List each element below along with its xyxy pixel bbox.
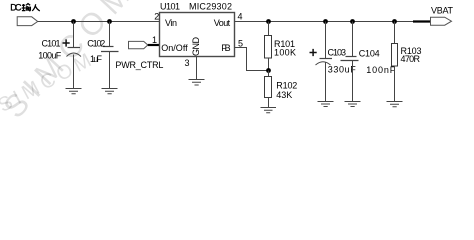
junction node C101 (71, 19, 76, 24)
svg-text:100uF: 100uF (38, 50, 62, 60)
svg-text:MIC29302: MIC29302 (189, 2, 232, 12)
wire FB net (235, 48, 269, 71)
ground (C104) (345, 102, 361, 107)
svg-text:1uF: 1uF (90, 54, 103, 64)
junction node R103 (392, 19, 397, 24)
wire pin 3 to ground (196, 57, 198, 80)
svg-text:DC: DC (10, 3, 22, 13)
svg-text:4: 4 (238, 11, 243, 21)
ground (R102) (261, 108, 277, 113)
junction node C102 (107, 19, 112, 24)
wire DC input net (38, 21, 160, 23)
junction node C103 (323, 19, 328, 24)
ground (C102) (102, 89, 118, 94)
regulator U101 MIC29302 (160, 2, 235, 57)
svg-text:C101: C101 (42, 38, 61, 48)
junction node FB (266, 68, 271, 73)
svg-text:FB: FB (221, 43, 231, 53)
svg-text:1: 1 (152, 35, 157, 45)
svg-text:Vin: Vin (165, 18, 177, 28)
svg-text:C104: C104 (359, 48, 380, 58)
capacitor C103 (310, 22, 357, 102)
svg-text:100K: 100K (274, 47, 296, 57)
resistor R102 (265, 71, 298, 108)
capacitor C104 (341, 22, 396, 102)
ground (C103) (318, 102, 334, 107)
capacitor C101 (38, 22, 81, 89)
resistor R101 (265, 22, 297, 71)
svg-text:C102: C102 (87, 38, 105, 48)
svg-text:3: 3 (184, 58, 189, 68)
svg-text:PWR_CTRL: PWR_CTRL (115, 60, 163, 70)
svg-text:C103: C103 (328, 47, 347, 57)
svg-text:On/Off: On/Off (161, 43, 188, 53)
ground (C101) (66, 89, 82, 94)
svg-text:470R: 470R (401, 54, 421, 64)
resistor R103 (392, 22, 422, 102)
junction node C104 (350, 19, 355, 24)
svg-text:VBAT: VBAT (431, 5, 454, 15)
ground (U101 pin 3) (189, 80, 205, 86)
ground (R103) (387, 102, 403, 107)
wire VOUT net (235, 21, 414, 23)
svg-text:U101: U101 (160, 2, 180, 12)
svg-text:GND: GND (191, 37, 201, 57)
port DC输入 (10, 3, 40, 26)
port VBAT (413, 5, 454, 25)
capacitor C102 (87, 22, 118, 89)
svg-text:330uF: 330uF (328, 64, 357, 74)
port PWR_CTRL (115, 41, 163, 69)
svg-text:43K: 43K (276, 90, 292, 100)
svg-text:Vout: Vout (214, 18, 231, 28)
svg-text:2: 2 (154, 11, 159, 21)
junction node R101 (266, 19, 271, 24)
